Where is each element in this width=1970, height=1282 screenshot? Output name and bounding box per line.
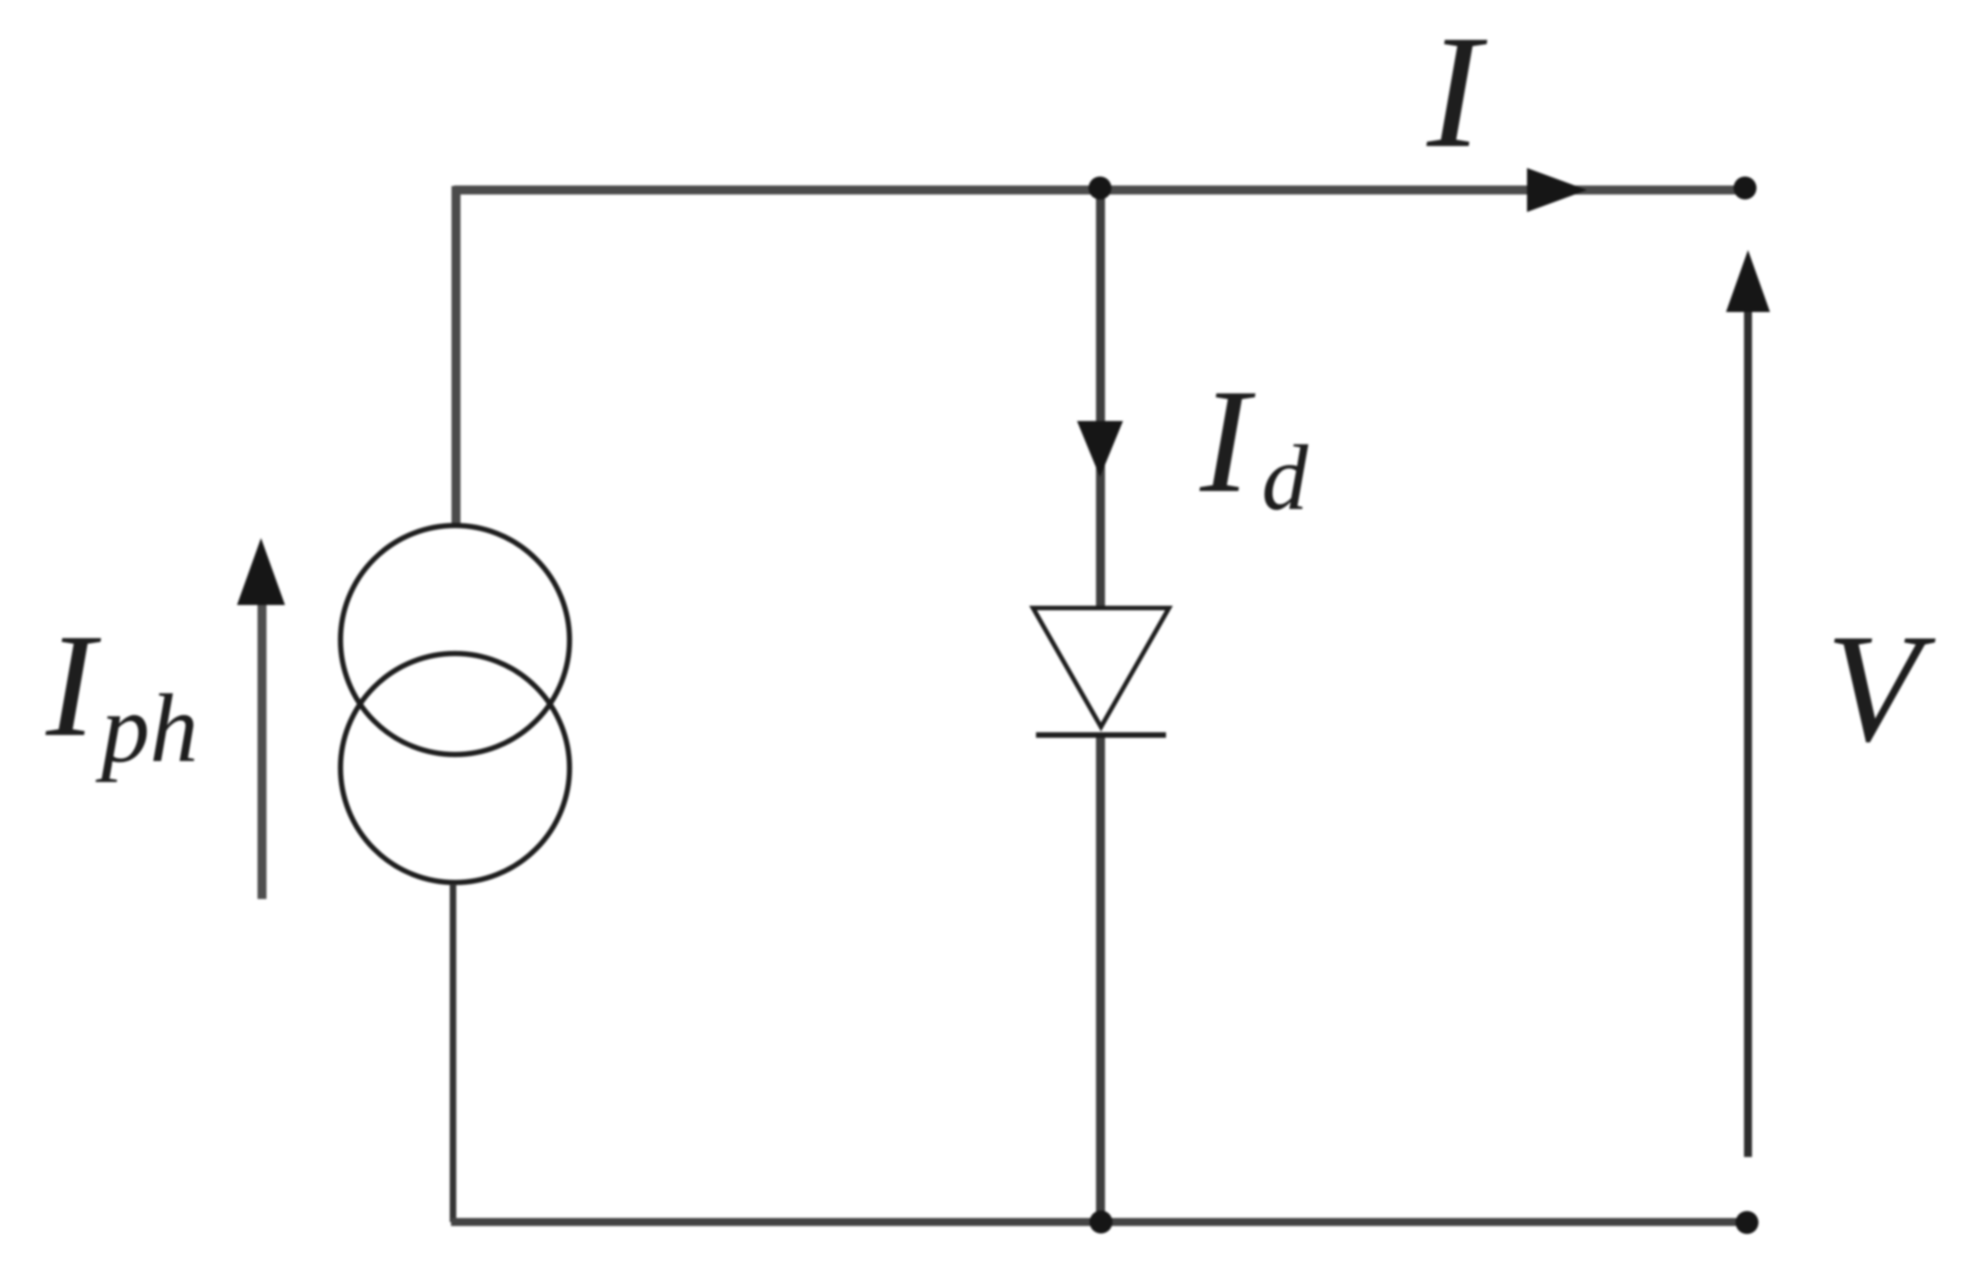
node terminal top right xyxy=(1734,177,1757,200)
svg-text:I: I xyxy=(1426,3,1488,182)
diode D cathode bar xyxy=(1036,732,1166,738)
wire left vertical lower xyxy=(450,884,457,1222)
arrow line current Iph xyxy=(258,604,267,899)
wire top horizontal xyxy=(454,186,1746,195)
svg-text:Id: Id xyxy=(1199,359,1309,530)
node junction top (diode tap) xyxy=(1089,177,1112,200)
arrowhead current Iph (points up) xyxy=(237,538,285,605)
diode D (triangle) xyxy=(1033,608,1169,727)
svg-text:V: V xyxy=(1826,602,1936,774)
current source Iph (two overlapping circles) xyxy=(341,526,570,883)
arrowhead current I (points right) xyxy=(1527,168,1587,212)
arrowhead voltage V (points up) xyxy=(1726,250,1770,312)
node junction bottom (diode tap) xyxy=(1090,1211,1113,1234)
arrow line voltage V xyxy=(1744,310,1752,1157)
wire diode branch upper xyxy=(1096,190,1105,608)
svg-text:Iph: Iph xyxy=(45,604,198,782)
wire bottom horizontal xyxy=(451,1218,1749,1226)
wire left vertical upper xyxy=(452,186,461,524)
wire diode branch lower xyxy=(1096,735,1105,1222)
node terminal bottom right xyxy=(1736,1211,1759,1234)
arrowhead current Id (points down) xyxy=(1077,421,1123,477)
